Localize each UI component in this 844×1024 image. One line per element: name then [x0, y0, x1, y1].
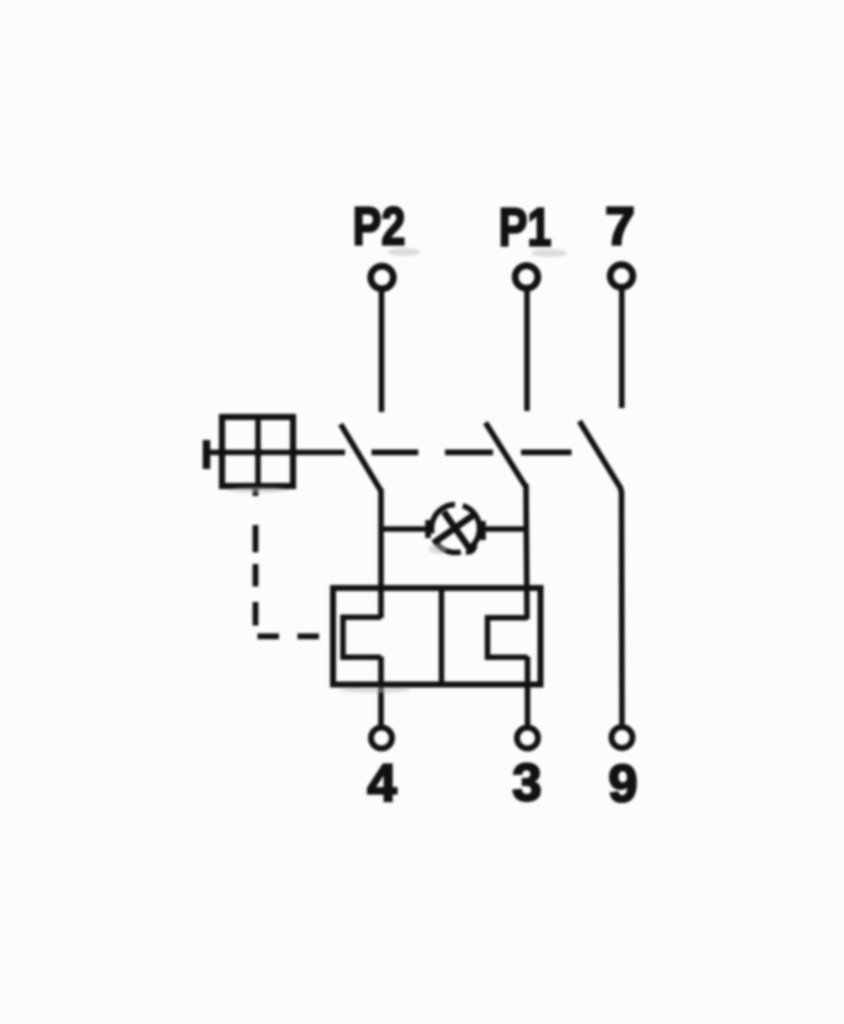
terminal 3 [517, 728, 538, 749]
actuator button end [203, 440, 211, 469]
terminal P2 [371, 266, 394, 289]
trip linkage dashed vertical [253, 486, 259, 626]
thermal overload block [333, 588, 541, 685]
wire pole2 mid [526, 484, 527, 619]
lamp sketch tail [466, 545, 475, 552]
mechanical linkage dashes [372, 449, 572, 455]
wire pole1 mid [378, 489, 384, 618]
faint scan smudges (paper artifacts) [228, 248, 567, 693]
svg-text:9: 9 [608, 755, 637, 814]
contact blade 3 [579, 421, 621, 493]
svg-text:3: 3 [512, 754, 541, 813]
wire pole1 lower [378, 657, 384, 729]
wire 7 drop [619, 288, 625, 409]
wire actuator stem [207, 450, 223, 456]
svg-text:P1: P1 [499, 198, 552, 258]
thermal block divider [439, 588, 445, 685]
lamp right tick [480, 521, 486, 540]
junction dots on actuator [217, 448, 297, 457]
svg-text:P2: P2 [353, 197, 406, 257]
contact blade 2 [486, 423, 526, 487]
terminal P1 [515, 266, 538, 289]
svg-text:7: 7 [605, 197, 635, 257]
thermal element right [488, 618, 528, 658]
terminal 9 [612, 727, 633, 748]
indicator lamp circle [422, 495, 489, 562]
terminal 4 [371, 728, 392, 749]
svg-text:4: 4 [367, 754, 397, 813]
wire P2 drop [379, 289, 385, 412]
contact blade 1 [341, 424, 381, 491]
trip linkage dashed horizontal [258, 633, 320, 639]
wire lamp left [381, 526, 430, 532]
wire pole2 lower [525, 657, 531, 729]
wire lamp right [481, 526, 527, 532]
wire linkage solid segment [293, 450, 345, 456]
indicator lamp cross [435, 508, 477, 550]
terminal 7 [610, 265, 633, 288]
wire pole3 down [619, 491, 625, 727]
lamp left tick [425, 520, 431, 538]
thermal element left [343, 617, 381, 657]
manual actuator box [222, 417, 293, 486]
wire P1 drop [524, 289, 530, 412]
